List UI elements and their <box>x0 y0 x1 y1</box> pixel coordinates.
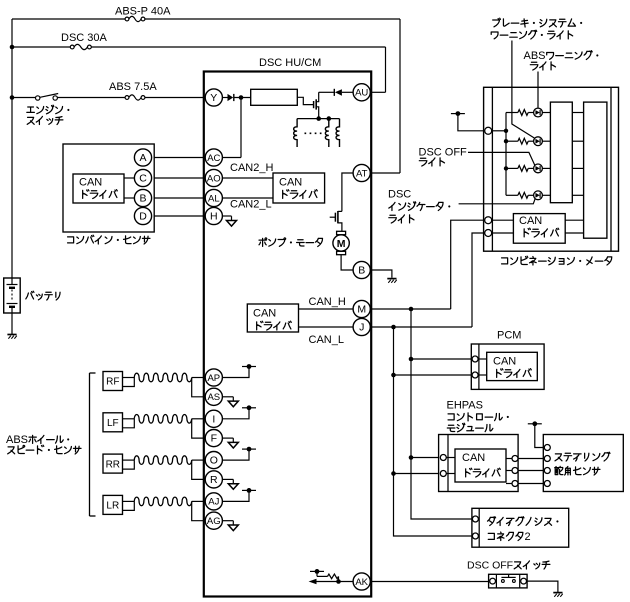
wire RR to O <box>192 459 206 461</box>
wire A to AC <box>154 157 205 159</box>
terminal steering pin3 <box>544 468 550 474</box>
wire AK to switch <box>370 581 488 583</box>
resistor lamp row 1 <box>518 110 528 116</box>
ground F body ground <box>228 438 238 448</box>
power stub meter feed <box>451 111 465 116</box>
node junction bus feed <box>504 129 508 133</box>
wire LR to AJ <box>192 500 206 502</box>
terminal meter pin2 <box>485 217 492 224</box>
wire AP power stub lead <box>222 367 249 378</box>
svg-text:Y: Y <box>210 92 217 104</box>
wire M row <box>370 308 450 310</box>
terminal meter pin1 <box>485 127 492 134</box>
wire row3 driver to gauge <box>572 167 583 169</box>
node junction AK pullup <box>336 579 341 584</box>
label ABS warning line2 <box>530 62 538 70</box>
wire H ground lead <box>222 215 231 217</box>
svg-text:CAN2_L: CAN2_L <box>230 199 272 211</box>
module steering angle sensor box <box>543 435 623 492</box>
wire LF lead1 <box>123 418 135 420</box>
label EHPAS line2 <box>448 414 454 420</box>
relay box (unlabeled) <box>251 89 298 105</box>
terminal D <box>134 207 151 224</box>
wire steering feed <box>535 424 544 448</box>
wire row3 resistor to lamp <box>528 167 533 169</box>
wire battery to ground <box>11 313 13 334</box>
label diag line1 <box>488 517 496 526</box>
wire row1 resistor to lamp <box>528 112 533 114</box>
battery <box>4 278 21 313</box>
svg-text:AL: AL <box>208 193 220 204</box>
label engine switch line2 <box>27 117 34 124</box>
wire U6 to out3 <box>506 483 512 485</box>
wire RF lead2 <box>123 378 135 387</box>
wire engine switch row <box>12 97 206 99</box>
svg-text:R: R <box>210 474 218 486</box>
svg-text:DSC 30A: DSC 30A <box>61 32 108 44</box>
wire B to ground <box>370 270 392 278</box>
wire RF lead1 <box>123 377 135 379</box>
lamp ABS warning light <box>534 137 543 146</box>
switch engine switch <box>36 94 59 101</box>
svg-text:F: F <box>211 433 217 445</box>
svg-text:EHPAS: EHPAS <box>447 400 483 412</box>
wire U4 to gauge a <box>565 219 583 221</box>
wire row2 resistor to lamp <box>528 140 533 142</box>
svg-text:AO: AO <box>207 173 221 184</box>
wire U4 to gauge b <box>565 232 583 234</box>
wire AO to CAN driver U2 <box>222 177 273 179</box>
lamp brake system warning light <box>534 108 543 117</box>
wire solenoid rail <box>297 118 339 120</box>
terminal meter pin3 <box>485 230 492 237</box>
ground AS body ground <box>228 397 238 407</box>
terminal EHPAS out1 <box>512 456 518 462</box>
svg-text:DSC OFF: DSC OFF <box>467 560 513 572</box>
svg-text:CAN_L: CAN_L <box>309 334 344 346</box>
diode D2 before AU <box>334 89 342 96</box>
wire EHPAS-steering b <box>518 470 544 472</box>
wire row1 driver to gauge <box>572 112 583 114</box>
wire bus to PCM pin1 <box>411 358 471 360</box>
svg-text:CAN: CAN <box>493 356 516 368</box>
power stub AJ <box>242 488 256 493</box>
svg-text:DSC HU/CM: DSC HU/CM <box>259 57 321 69</box>
label U1 driver <box>83 190 89 199</box>
ground battery chassis ground <box>7 335 16 339</box>
terminal J <box>353 318 370 335</box>
dotted continuation between coils <box>305 132 325 134</box>
wire row4 resistor to lamp <box>528 194 533 196</box>
wire AS ground lead <box>222 396 233 398</box>
module combine sensor box <box>63 144 154 232</box>
wire U3 to M <box>299 308 354 310</box>
wire Q1 drain to diode D2 <box>319 91 335 93</box>
svg-text:M: M <box>337 238 346 250</box>
terminal EHPAS pin2 <box>440 471 446 477</box>
power stub steering feed <box>528 421 542 426</box>
wire D to H <box>154 215 205 217</box>
terminal AC <box>205 149 222 166</box>
wire DSC 30A feed <box>12 46 386 48</box>
wire EHPAS pin2 to U6 <box>446 473 455 475</box>
ic CAN driver U3 box <box>247 304 298 332</box>
wire LR lead2 <box>123 501 135 510</box>
terminal AT <box>353 164 370 181</box>
svg-text:O: O <box>210 455 218 467</box>
module combination meter box <box>484 87 619 251</box>
ground switch chassis ground <box>553 593 562 597</box>
wire U6 to out2 <box>506 470 512 472</box>
wire diode to relay box <box>234 97 251 99</box>
power stub pullup feed <box>310 569 324 574</box>
motor pump motor M1 <box>333 231 349 254</box>
label U5 driver <box>497 369 503 378</box>
ground B chassis ground <box>387 279 396 283</box>
svg-text:M: M <box>357 304 366 316</box>
coil solenoid valve L2 <box>325 119 328 147</box>
wire bus to PCM pin2 <box>394 374 472 376</box>
lamp DSC indicator light <box>534 191 543 200</box>
wire CAN_L bus down <box>394 327 472 536</box>
wire R ground lead <box>222 478 233 480</box>
wire row2 lamp to driver <box>542 140 550 142</box>
wire row3 lamp to driver <box>542 167 550 169</box>
ic CAN driver U6 box <box>455 449 506 482</box>
svg-text:AK: AK <box>355 577 368 588</box>
leader DSC indicator <box>459 199 536 204</box>
wire riser down to AC <box>222 98 241 158</box>
svg-text:CAN_H: CAN_H <box>309 296 346 308</box>
svg-text:H: H <box>210 211 218 223</box>
wire top ABS-P 40A feed from battery node to AT riser <box>12 18 400 20</box>
module EHPAS box <box>439 435 518 492</box>
wire CAN_H bus down <box>411 309 472 519</box>
wire RF shield to AS <box>192 378 206 397</box>
wire U1 to B2 <box>124 197 134 199</box>
terminal diag pin2 <box>472 533 478 539</box>
cable twisted pair RF <box>134 373 191 382</box>
sensor RR box <box>103 454 123 473</box>
terminal AJ <box>205 493 222 510</box>
svg-text:B: B <box>358 265 365 277</box>
wire meter feed <box>458 114 485 131</box>
wire EHPAS-steering a <box>518 458 544 460</box>
node junction rail coil2 <box>327 116 332 121</box>
label U2 driver <box>283 190 289 199</box>
terminal EHPAS pin1 <box>440 455 446 461</box>
label ABS wheel line2 <box>8 447 15 454</box>
module PCM box <box>471 344 544 389</box>
svg-text:AU: AU <box>355 88 368 99</box>
wire O power stub lead <box>222 449 249 460</box>
ground AG body ground <box>228 521 238 531</box>
terminal AL <box>205 189 222 206</box>
wire row2 driver to gauge <box>572 140 583 142</box>
node junction bus row2 <box>504 139 508 143</box>
label ABS wheel line1b <box>29 435 36 443</box>
label pump motor <box>259 238 267 246</box>
wire RR shield to R <box>192 460 206 479</box>
terminal B <box>353 261 370 278</box>
label U4 driver <box>524 228 530 237</box>
node junction to AC riser <box>239 95 244 100</box>
wire LR shield to AG <box>192 501 206 520</box>
label battery <box>26 291 34 299</box>
fuse ABS 7.5A <box>125 95 145 100</box>
wire EHPAS pin1 to U6 <box>446 457 455 459</box>
wire RF to AP <box>192 377 206 379</box>
label EHPAS line3 <box>447 425 455 431</box>
label DSC OFF switch b <box>514 562 521 569</box>
svg-text:CAN: CAN <box>462 452 485 464</box>
label U3 driver <box>257 321 263 330</box>
module diagnosis connector box <box>472 508 569 547</box>
svg-text:AG: AG <box>207 516 221 527</box>
wire row2 bus to resistor <box>506 140 518 142</box>
wire AT to Q2 <box>342 173 353 211</box>
wire PCM pin1 to U5 <box>478 358 487 360</box>
ground R body ground <box>228 479 238 489</box>
wire LF lead2 <box>123 419 135 428</box>
wire AJ power stub lead <box>222 490 249 501</box>
node junction PCM L tap <box>391 373 396 378</box>
svg-text:I: I <box>212 413 215 425</box>
wire C to AO <box>154 177 205 179</box>
sensor RF box <box>103 372 123 391</box>
terminal diag pin1 <box>472 516 478 522</box>
ic meter gauge box2 <box>584 102 607 238</box>
svg-text:PCM: PCM <box>497 330 521 342</box>
wire relay to mosfet Q1 gate <box>297 97 313 104</box>
wire U3 to J <box>299 326 354 328</box>
wire left battery bus <box>11 19 13 278</box>
terminal EHPAS out2 <box>512 468 518 474</box>
svg-text:CAN2_H: CAN2_H <box>230 162 273 174</box>
ic CAN driver U1 box <box>73 174 124 203</box>
coil solenoid valve L1 <box>294 119 297 147</box>
ic CAN driver U4 box <box>513 214 565 244</box>
node junction CAN_L bus <box>391 325 396 330</box>
ic CAN driver U5 box <box>487 352 538 380</box>
wire U1 to C <box>124 177 134 179</box>
wire bus to EHPAS pin1 <box>411 457 439 459</box>
label brake system warning line2 <box>491 32 498 39</box>
terminal EHPAS out3 <box>512 481 518 487</box>
svg-text:AS: AS <box>207 392 220 403</box>
power stub AP <box>242 364 256 369</box>
wire I power stub lead <box>222 408 249 419</box>
transistor Q1 fail-safe relay driver <box>314 92 319 118</box>
wire pullup riser <box>317 571 339 581</box>
label DSC OFF light line2 <box>419 158 427 166</box>
svg-text:RR: RR <box>106 459 120 470</box>
wire EHPAS-steering c <box>518 483 544 485</box>
wire RR lead2 <box>123 460 135 469</box>
ic CAN driver U2 box <box>273 173 325 203</box>
wire LF to I <box>192 418 206 420</box>
wire meter pin1 to bus <box>492 130 506 132</box>
terminal AS <box>205 388 222 405</box>
diode D1 after Y <box>228 94 234 101</box>
svg-text:2: 2 <box>525 531 531 543</box>
bracket wheel sensors <box>90 373 96 516</box>
resistor lamp row 3 <box>518 166 528 172</box>
svg-text:ABS 7.5A: ABS 7.5A <box>109 81 157 93</box>
resistor lamp row 2 <box>518 138 528 144</box>
coil solenoid valve L3 <box>336 119 339 147</box>
label combine sensor <box>68 237 74 243</box>
wire AG ground lead <box>222 520 233 522</box>
leader ABS warning <box>537 72 539 108</box>
switch DSC OFF switch <box>489 574 527 588</box>
ic meter driver box1 <box>550 102 572 203</box>
wire meter pin2 to U4 <box>492 219 514 221</box>
terminal AO <box>205 169 222 186</box>
node junction DSC30A/battery bus <box>10 45 15 50</box>
label DSC indicator line2 <box>389 202 395 210</box>
svg-text:C: C <box>139 173 147 185</box>
cable twisted pair RR <box>134 456 191 465</box>
wire row1 lamp to driver <box>542 112 550 114</box>
terminal F <box>205 430 222 447</box>
wire J row <box>370 326 472 328</box>
svg-text:DSC: DSC <box>388 189 411 201</box>
cable twisted pair LF <box>134 414 191 423</box>
terminal C <box>134 169 151 186</box>
wire LF shield to F <box>192 419 206 438</box>
terminal steering pin4 <box>544 481 550 487</box>
terminal A <box>134 149 151 166</box>
wire lamp bus <box>505 113 507 196</box>
svg-text:CAN: CAN <box>519 215 542 227</box>
leader DSC OFF light <box>468 152 535 165</box>
resistor R1 pullup <box>328 574 339 579</box>
wire RR lead1 <box>123 459 135 461</box>
terminal steering pin2 <box>544 456 550 462</box>
terminal O <box>205 452 222 469</box>
node junction PCM H tap <box>409 357 414 362</box>
resistor lamp row 4 <box>518 192 528 198</box>
wire riser to terminal AT <box>370 19 400 173</box>
wire AK sense line with arrow <box>309 579 354 585</box>
wire B to AL <box>154 197 205 199</box>
label brake system warning line1 <box>493 18 501 27</box>
label diag line2a <box>488 533 494 539</box>
svg-text:J: J <box>359 322 364 334</box>
wire CAN_H riser to meter <box>451 220 485 309</box>
wire row3 bus to resistor <box>506 167 518 169</box>
node junction engine-switch/battery bus <box>10 95 15 100</box>
wire row4 bus to resistor <box>506 194 518 196</box>
power stub O <box>242 447 256 452</box>
svg-text:AP: AP <box>207 373 220 384</box>
terminal R <box>205 471 222 488</box>
label DSC indicator line3 <box>389 215 397 223</box>
label ABS warning line1b <box>547 53 554 60</box>
node junction CAN_H bus <box>409 307 414 312</box>
svg-text:A: A <box>139 152 146 164</box>
label U6 driver <box>466 468 472 477</box>
terminal I <box>205 410 222 427</box>
fuse ABS-P 40A <box>125 16 145 21</box>
terminal M <box>353 300 370 317</box>
module DSC HU/CM box <box>204 72 371 597</box>
svg-text:D: D <box>139 211 147 223</box>
label steering line2 <box>555 466 563 474</box>
svg-text:AT: AT <box>356 168 368 179</box>
svg-text:B: B <box>139 193 146 205</box>
fuse DSC 30A <box>70 44 91 49</box>
svg-text:DSC OFF: DSC OFF <box>419 147 468 159</box>
wire AL to CAN driver U2 <box>222 197 273 199</box>
wire row1 bus to resistor <box>506 112 518 114</box>
lamp DSC OFF light <box>534 164 543 173</box>
ground H body ground <box>227 216 237 226</box>
sensor LF box <box>103 413 123 432</box>
sensor LR box <box>103 495 123 514</box>
terminal PCM pin1 <box>472 356 478 362</box>
label combination meter <box>502 258 508 264</box>
node junction Q1 source to rail <box>316 116 321 121</box>
terminal AP <box>205 369 222 386</box>
leader brake system warning <box>512 41 535 139</box>
terminal AG <box>205 512 222 529</box>
wire U6 to out1 <box>506 458 512 460</box>
svg-text:CAN: CAN <box>279 177 302 189</box>
label steering line1 <box>555 454 562 461</box>
wire CAN_L riser to meter <box>472 233 485 327</box>
terminal steering pin1 <box>544 445 550 451</box>
wire F ground lead <box>222 437 233 439</box>
power stub I <box>242 405 256 410</box>
cable twisted pair LR <box>134 497 191 506</box>
wire LR lead1 <box>123 500 135 502</box>
wire PCM pin2 to U5 <box>478 374 487 376</box>
terminal B2 <box>134 189 151 206</box>
label engine switch line1 <box>27 107 35 112</box>
svg-text:RF: RF <box>106 377 119 388</box>
wire riser to terminal AU <box>370 47 385 92</box>
svg-text:ABS: ABS <box>6 434 28 446</box>
terminal PCM pin2 <box>472 372 478 378</box>
terminal H <box>205 207 222 224</box>
svg-text:ABS: ABS <box>524 50 546 62</box>
wire D2 to AU <box>342 91 353 93</box>
wire Y to diode <box>222 97 227 99</box>
wire motor to B <box>341 255 353 270</box>
terminal Y <box>205 89 222 106</box>
transistor Q2 pump motor driver <box>330 211 342 231</box>
wire switch to ground <box>527 581 558 592</box>
terminal AU <box>353 84 370 101</box>
svg-text:LR: LR <box>106 501 119 512</box>
wire row4 lamp to driver <box>542 194 550 196</box>
svg-text:CAN: CAN <box>79 177 102 189</box>
wire row4 driver to gauge <box>572 194 583 196</box>
wire meter pin3 to U4 <box>492 232 514 234</box>
wire bus to EHPAS pin2 <box>394 473 439 475</box>
svg-text:AJ: AJ <box>208 497 219 508</box>
svg-text:AC: AC <box>207 153 220 164</box>
svg-text:ABS-P 40A: ABS-P 40A <box>115 6 171 18</box>
node junction bus row3 <box>504 166 508 170</box>
svg-text:CAN: CAN <box>253 308 276 320</box>
svg-text:LF: LF <box>107 418 119 429</box>
node junction EHPAS H tap <box>409 455 414 460</box>
terminal AK <box>353 573 370 590</box>
node junction EHPAS L tap <box>391 471 396 476</box>
